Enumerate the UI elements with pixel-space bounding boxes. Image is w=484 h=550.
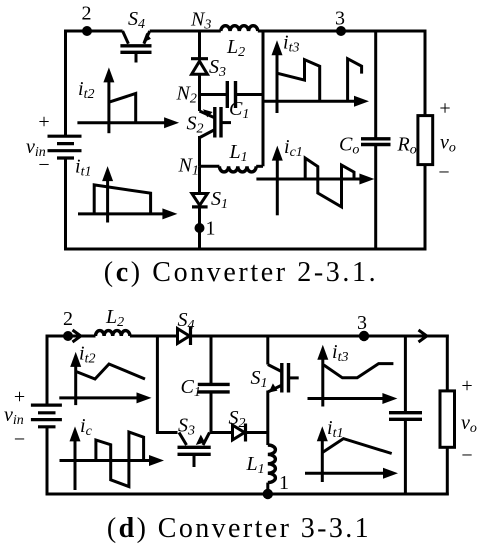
waveform it1 axes (fig d) (305, 426, 398, 482)
svg-text:2: 2 (82, 3, 92, 25)
svg-text:it1: it1 (327, 417, 343, 441)
svg-text:ic: ic (80, 415, 93, 439)
transistor S3 (fig d) (178, 433, 211, 468)
svg-text:+: + (439, 98, 450, 120)
waveform it2 axes (fig d) (59, 352, 151, 405)
wire bottom rail (fig c) (64, 248, 426, 251)
svg-text:+: + (461, 375, 472, 397)
transistor S2 (fig c) (200, 95, 232, 167)
svg-text:Ro: Ro (397, 134, 417, 158)
waveform it3 curve (fig c) (277, 59, 362, 102)
waveform ic1 axes (fig c) (256, 146, 374, 216)
svg-text:(c) Converter 2-3.1.: (c) Converter 2-3.1. (104, 257, 378, 288)
waveform it1 curve (fig c) (94, 185, 150, 214)
waveform it1 axes (fig c) (78, 166, 177, 222)
wire top rail right segment (fig c) (258, 30, 427, 33)
waveform it3 axes (fig c) (263, 40, 369, 113)
node 1 (fig c) (195, 223, 205, 233)
battery Vin (fig d) (31, 405, 62, 427)
wire branch x=157 (fig d) (157, 336, 177, 433)
svg-text:S2: S2 (229, 407, 246, 431)
wire top rail (fig d) (46, 335, 96, 338)
svg-text:C1: C1 (181, 376, 201, 400)
waveform it1 curve (fig d) (323, 439, 392, 454)
svg-text:3: 3 (357, 312, 367, 334)
node N3 junction wire (198, 31, 201, 59)
svg-text:L2: L2 (105, 306, 124, 330)
svg-text:it3: it3 (332, 341, 348, 365)
svg-text:L1: L1 (246, 453, 265, 477)
svg-text:+: + (38, 111, 49, 133)
inductor L1 (fig c) (200, 166, 264, 172)
wire top rail left segment (fig c) (64, 30, 123, 33)
svg-text:C1: C1 (229, 98, 249, 122)
svg-text:S4: S4 (178, 309, 195, 333)
svg-text:1: 1 (279, 472, 289, 494)
arrow on wire after node 3 (fig d) (419, 330, 427, 342)
diode S1 (fig c) (192, 166, 208, 250)
svg-text:N1: N1 (178, 155, 199, 179)
inductor L1 (fig d) (268, 433, 276, 495)
node N2 wire (200, 93, 228, 96)
waveform it2 curve (fig d) (76, 364, 145, 379)
inductor L2 (fig c) (221, 26, 258, 31)
svg-text:vo: vo (440, 132, 456, 156)
svg-text:L1: L1 (229, 141, 248, 165)
node 2 (fig d) (63, 331, 73, 341)
waveform ic axes (fig d) (60, 426, 165, 490)
waveform ic curve (fig d) (96, 432, 144, 487)
battery Vin (fig c) (48, 136, 82, 158)
svg-text:−: − (38, 154, 49, 176)
svg-text:S3: S3 (209, 56, 226, 80)
wire top rail mid segment (fig c) (150, 30, 221, 33)
svg-text:3: 3 (335, 8, 345, 30)
svg-text:vo: vo (461, 412, 477, 436)
svg-text:it1: it1 (75, 156, 91, 180)
waveform it2 axes (fig c) (77, 67, 179, 133)
wire left rail top (fig c) (64, 30, 67, 137)
inductor L2 (fig d) (96, 331, 130, 336)
diode S2 (fig d) (233, 424, 268, 442)
diode S4 (fig d) (178, 327, 191, 345)
svg-text:it2: it2 (78, 78, 94, 102)
node 2 (fig c) (82, 26, 92, 36)
svg-text:+: + (14, 386, 25, 408)
svg-text:S4: S4 (128, 8, 145, 32)
node 3 (fig c) (336, 26, 346, 36)
svg-text:L2: L2 (226, 36, 245, 60)
svg-text:S2: S2 (187, 113, 204, 137)
svg-text:S1: S1 (251, 367, 268, 391)
waveform it3 axes (fig d) (308, 345, 398, 407)
svg-text:−: − (438, 162, 449, 184)
waveform ic1 curve (fig c) (305, 158, 354, 207)
capacitor output branch (fig d) (389, 336, 422, 494)
svg-text:1: 1 (206, 218, 216, 240)
wire bottom rail (fig d) (46, 493, 449, 496)
wire S3 to S2 (fig d) (210, 431, 233, 434)
svg-text:(d) Converter 3-3.1: (d) Converter 3-3.1 (107, 513, 371, 544)
svg-text:−: − (14, 429, 25, 451)
diode S3 (fig c) (191, 59, 208, 95)
wire top rail segment 3 (fig d) (191, 335, 365, 338)
wire left rail bottom (fig c) (64, 157, 67, 250)
arrow on wire after node 2 (fig d) (73, 330, 81, 342)
wire node line x=263 (fig c) (262, 31, 265, 166)
transistor S4 (fig c) (120, 31, 151, 63)
capacitor C1 branch (fig d) (198, 336, 230, 433)
svg-text:Co: Co (339, 134, 359, 158)
svg-text:it3: it3 (283, 32, 299, 56)
svg-text:ic1: ic1 (284, 136, 303, 160)
waveform it3 curve (fig d) (324, 364, 394, 378)
wire top rail segment 2 (fig d) (130, 335, 178, 338)
wire C1 to node line (236, 93, 264, 96)
wire top rail right (fig d) (364, 335, 449, 338)
svg-text:N3: N3 (190, 9, 211, 33)
capacitor C1 (fig c) (227, 81, 235, 108)
svg-text:it2: it2 (79, 343, 95, 367)
resistor Vo (fig d) (440, 391, 455, 447)
wire left rail top (fig d) (46, 335, 49, 406)
wire right rail (fig d) (446, 335, 449, 496)
node 3 (fig d) (359, 331, 369, 341)
svg-text:N2: N2 (176, 83, 197, 107)
svg-text:S3: S3 (178, 415, 195, 439)
transistor S1 (fig d) (268, 336, 299, 433)
svg-text:S1: S1 (211, 188, 228, 212)
wire right rail (fig c) (424, 30, 427, 251)
resistor Ro (fig c) (418, 116, 433, 165)
node 1 (fig d) (263, 489, 273, 499)
svg-text:2: 2 (63, 308, 73, 330)
capacitor Co branch (fig c) (361, 31, 391, 249)
svg-text:−: − (461, 445, 472, 467)
waveform it2 curve (fig c) (109, 94, 136, 123)
wire left rail bottom (fig d) (46, 426, 49, 495)
